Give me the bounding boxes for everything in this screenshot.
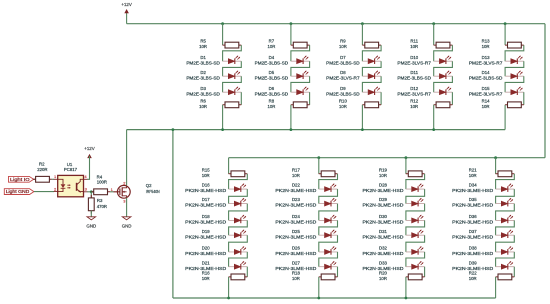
svg-text:D8: D8: [340, 70, 346, 75]
wire U1 pin3-R4: [87, 191, 93, 193]
wire D20-D21: [229, 252, 248, 267]
ground: [86, 217, 96, 229]
wire R7-D4: [291, 45, 310, 61]
resistor R12 10R: [434, 102, 453, 108]
wire right edge feed: [544, 24, 546, 158]
svg-text:PK2N-3LME-HSD: PK2N-3LME-HSD: [452, 203, 493, 208]
wire bank2 bottom rail: [173, 297, 496, 299]
wire D13-D14: [505, 61, 524, 76]
wire +12V top rail: [127, 23, 545, 25]
wire R16 return: [228, 277, 230, 298]
svg-text:PK2N-3LME-HSD: PK2N-3LME-HSD: [185, 234, 226, 239]
wire D33-R20: [424, 267, 426, 277]
svg-text:PM2E-3LBS-SD: PM2E-3LBS-SD: [397, 75, 431, 80]
svg-text:PK2N-3LME-HSD: PK2N-3LME-HSD: [275, 234, 316, 239]
wire D2-D3: [223, 76, 242, 92]
svg-text:PM2E-3LVS-R7: PM2E-3LVS-R7: [326, 75, 360, 80]
svg-text:PM2E-3LBS-SD: PM2E-3LBS-SD: [326, 91, 360, 96]
wire R9 feed: [361, 24, 363, 45]
wire D11-D12: [434, 76, 453, 92]
svg-text:GND: GND: [122, 223, 132, 228]
svg-text:R6: R6: [200, 98, 206, 103]
node bottom rail joint R16: [227, 297, 230, 300]
svg-text:D38: D38: [469, 246, 477, 251]
svg-text:PK2N-3LME-HSD: PK2N-3LME-HSD: [452, 234, 493, 239]
resistor R4 100R: [91, 189, 110, 195]
svg-text:+12V: +12V: [84, 146, 94, 151]
svg-text:D36: D36: [469, 214, 477, 219]
LED D12 PM2E-3LVS-R7: [434, 87, 453, 95]
wire D18-D19: [229, 220, 248, 235]
node top rail joint R13: [504, 22, 507, 25]
wire R6 return: [222, 105, 224, 130]
svg-text:PC817: PC817: [64, 167, 78, 172]
svg-text:GND: GND: [86, 223, 96, 228]
svg-text:PK2N-3LME-HSD: PK2N-3LME-HSD: [275, 220, 316, 225]
resistor R11 10R: [434, 42, 453, 48]
resistor R19 10R: [406, 171, 425, 177]
svg-text:10R: 10R: [339, 44, 347, 49]
wire U1 pin4-+12V: [87, 156, 89, 179]
svg-text:R11: R11: [410, 39, 418, 44]
resistor R17 10R: [319, 171, 338, 177]
wire D30-D31: [406, 220, 425, 235]
svg-text:10R: 10R: [267, 104, 275, 109]
svg-text:10R: 10R: [410, 104, 418, 109]
svg-text:PM2E-3LVS-R7: PM2E-3LVS-R7: [397, 60, 431, 65]
wire R12 return: [433, 105, 435, 130]
LED D5 PM2E-3LBS-SD: [291, 71, 310, 79]
LED D13 PM2E-3LVS-R7: [505, 56, 524, 64]
wire R19 feed: [405, 158, 407, 174]
wire R7 feed: [290, 24, 292, 45]
svg-text:R3: R3: [97, 198, 103, 203]
LED D26 PK2N-3LME-HSD: [319, 246, 338, 254]
LED D37 PK2N-3LME-HSD: [496, 230, 515, 238]
svg-text:D6: D6: [269, 86, 275, 91]
node mid rail joint R8: [290, 128, 293, 131]
wire R15 feed: [228, 158, 230, 174]
svg-text:R7: R7: [269, 39, 275, 44]
svg-text:PK2N-3LME-HSD: PK2N-3LME-HSD: [363, 203, 404, 208]
wire D5-D6: [291, 76, 310, 92]
wire D15-R14: [523, 92, 525, 105]
wire R11 feed: [433, 24, 435, 45]
node bank2 rail joint R19: [405, 156, 408, 159]
wire D3-R6: [240, 92, 242, 105]
svg-text:PK2N-3LME-HSD: PK2N-3LME-HSD: [363, 188, 404, 193]
resistor R2 220R: [33, 176, 52, 182]
svg-text:10R: 10R: [292, 276, 300, 281]
node mid rail joint R6: [221, 128, 224, 131]
svg-text:D39: D39: [469, 260, 477, 265]
svg-text:R8: R8: [269, 98, 275, 103]
svg-text:D7: D7: [340, 55, 346, 60]
svg-text:PM2E-3LBS-SD: PM2E-3LBS-SD: [326, 60, 360, 65]
power +12V: [121, 2, 131, 13]
node top rail joint R11: [432, 22, 435, 25]
svg-text:220R: 220R: [37, 167, 47, 172]
wire R13 feed: [504, 24, 506, 45]
svg-text:D12: D12: [410, 86, 418, 91]
hier label Light IO: [9, 176, 34, 182]
svg-text:D5: D5: [269, 70, 275, 75]
svg-text:D19: D19: [202, 229, 210, 234]
svg-text:10R: 10R: [267, 44, 275, 49]
wire R20 return: [405, 277, 407, 298]
node bank2 rail joint R21: [494, 156, 497, 159]
wire +12V stem: [126, 11, 128, 24]
svg-text:PK2N-3LME-HSD: PK2N-3LME-HSD: [452, 188, 493, 193]
wire D4-D5: [291, 61, 310, 76]
LED D38 PK2N-3LME-HSD: [496, 246, 515, 254]
svg-text:Q2: Q2: [146, 183, 152, 188]
svg-text:PK2N-3LME-HSD: PK2N-3LME-HSD: [185, 203, 226, 208]
LED D23 PK2N-3LME-HSD: [319, 198, 338, 206]
svg-text:PK2N-3LME-HSD: PK2N-3LME-HSD: [452, 251, 493, 256]
wire R13-D13: [505, 45, 524, 61]
wire flag2-U1 pin2: [34, 191, 54, 193]
svg-text:D18: D18: [202, 214, 210, 219]
node node gate-divider: [90, 190, 93, 193]
LED D29 PK2N-3LME-HSD: [406, 198, 425, 206]
LED D33 PK2N-3LME-HSD: [406, 261, 425, 269]
wire D37-D38: [496, 235, 515, 252]
resistor R8 10R: [291, 102, 310, 108]
wire R22 return: [495, 277, 497, 298]
svg-text:10R: 10R: [199, 44, 207, 49]
svg-text:PM2E-3LVS-R7: PM2E-3LVS-R7: [397, 91, 431, 96]
svg-text:D25: D25: [292, 229, 300, 234]
wire D25-D26: [319, 235, 338, 252]
svg-text:R12: R12: [410, 98, 418, 103]
wire D21-R16: [246, 267, 248, 277]
wire D23-D24: [319, 204, 338, 221]
node bottom rail joint R18: [317, 297, 320, 300]
svg-text:PK2N-3LME-HSD: PK2N-3LME-HSD: [275, 251, 316, 256]
svg-text:R22: R22: [469, 271, 477, 276]
wire R11-D10: [434, 45, 453, 61]
wire drain riser: [126, 130, 128, 186]
svg-text:PK2N-3LME-HSD: PK2N-3LME-HSD: [363, 251, 404, 256]
svg-text:10R: 10R: [482, 44, 490, 49]
optocoupler U1 PC817: [58, 175, 84, 196]
wire D8-D9: [362, 76, 381, 92]
wire R21-D34: [496, 174, 515, 189]
wire D10-D11: [434, 61, 453, 76]
wire left return drop: [172, 130, 174, 298]
wire R3-GND: [90, 211, 92, 217]
wire D24-D25: [319, 220, 338, 235]
svg-text:D33: D33: [379, 260, 387, 265]
LED D9 PM2E-3LBS-SD: [362, 87, 381, 95]
svg-text:D27: D27: [292, 260, 300, 265]
wire flag1-R2: [34, 178, 36, 180]
svg-text:D24: D24: [292, 214, 300, 219]
svg-text:100R: 100R: [97, 180, 107, 185]
wire R5-D1: [223, 45, 242, 61]
wire bank2 top rail: [229, 157, 545, 159]
LED D27 PK2N-3LME-HSD: [319, 261, 338, 269]
LED D35 PK2N-3LME-HSD: [496, 198, 515, 206]
svg-text:PM2E-3LBS-SD: PM2E-3LBS-SD: [255, 91, 289, 96]
transistor Q2 IRF540N: [114, 185, 131, 198]
wire R17 feed: [318, 158, 320, 174]
svg-text:D37: D37: [469, 229, 477, 234]
resistor R7 10R: [291, 42, 310, 48]
svg-text:10R: 10R: [292, 173, 300, 178]
LED D31 PK2N-3LME-HSD: [406, 230, 425, 238]
wire D7-D8: [362, 61, 381, 76]
svg-text:R10: R10: [339, 98, 347, 103]
LED D1 PM2E-3LBS-SD: [223, 56, 242, 64]
svg-text:D34: D34: [469, 183, 477, 188]
svg-text:D15: D15: [482, 86, 490, 91]
svg-text:R14: R14: [482, 98, 490, 103]
svg-text:D28: D28: [379, 183, 387, 188]
svg-text:PM2E-3LBS-SD: PM2E-3LBS-SD: [186, 60, 220, 65]
svg-text:PM2E-3LBS-SD: PM2E-3LBS-SD: [186, 75, 220, 80]
wire R15-D16: [229, 174, 248, 189]
svg-text:10R: 10R: [379, 276, 387, 281]
svg-text:D2: D2: [200, 70, 206, 75]
svg-text:D13: D13: [482, 55, 490, 60]
wire D38-D39: [496, 252, 515, 267]
wire R17-D22: [319, 174, 338, 189]
svg-text:D32: D32: [379, 246, 387, 251]
wire D35-D36: [496, 204, 515, 221]
node bottom rail joint R20: [405, 297, 408, 300]
svg-text:PM2E-3LVS-R7: PM2E-3LVS-R7: [469, 91, 503, 96]
LED D24 PK2N-3LME-HSD: [319, 215, 338, 223]
LED D11 PM2E-3LBS-SD: [434, 71, 453, 79]
LED D6 PM2E-3LBS-SD: [291, 87, 310, 95]
svg-text:PM2E-3LVS-R7: PM2E-3LVS-R7: [469, 60, 503, 65]
svg-text:D30: D30: [379, 214, 387, 219]
svg-text:D35: D35: [469, 197, 477, 202]
resistor R9 10R: [362, 42, 381, 48]
svg-text:PM2E-3LBS-SD: PM2E-3LBS-SD: [255, 60, 289, 65]
svg-text:D26: D26: [292, 246, 300, 251]
wire mid drain rail: [127, 129, 506, 131]
wire R8 return: [290, 105, 292, 130]
svg-text:10R: 10R: [339, 104, 347, 109]
svg-text:R15: R15: [202, 167, 210, 172]
wire D9-R10: [380, 92, 382, 105]
resistor R16 10R: [229, 274, 248, 280]
wire D34-D35: [496, 189, 515, 204]
svg-text:10R: 10R: [482, 104, 490, 109]
svg-text:R20: R20: [379, 271, 387, 276]
node mid rail joint return: [172, 128, 175, 131]
node top rail joint R5: [221, 22, 224, 25]
LED D18 PK2N-3LME-HSD: [229, 215, 248, 223]
wire D39-R22: [513, 267, 515, 277]
LED D36 PK2N-3LME-HSD: [496, 215, 515, 223]
wire D17-D18: [229, 204, 248, 221]
svg-text:10R: 10R: [469, 173, 477, 178]
svg-text:D9: D9: [340, 86, 346, 91]
node mid rail joint R10: [361, 128, 364, 131]
LED D28 PK2N-3LME-HSD: [406, 184, 425, 192]
resistor R22 10R: [496, 274, 515, 280]
svg-text:D23: D23: [292, 197, 300, 202]
node mid rail joint R12: [432, 128, 435, 131]
LED D16 PK2N-3LME-HSD: [229, 184, 248, 192]
svg-text:PK2N-3LME-HSD: PK2N-3LME-HSD: [275, 203, 316, 208]
LED D15 PM2E-3LVS-R7: [505, 87, 524, 95]
wire D32-D33: [406, 252, 425, 267]
wire Q2 source-GND: [126, 198, 128, 217]
LED D7 PM2E-3LBS-SD: [362, 56, 381, 64]
svg-text:D14: D14: [482, 70, 490, 75]
svg-text:PK2N-3LME-HSD: PK2N-3LME-HSD: [185, 220, 226, 225]
wire D27-R18: [337, 267, 339, 277]
LED D19 PK2N-3LME-HSD: [229, 230, 248, 238]
svg-text:10R: 10R: [202, 276, 210, 281]
pin stubs U1: [54, 179, 88, 192]
svg-text:470R: 470R: [97, 204, 107, 209]
wire D1-D2: [223, 61, 242, 76]
svg-text:Light IO: Light IO: [10, 177, 30, 182]
svg-text:PK2N-3LME-HSD: PK2N-3LME-HSD: [363, 234, 404, 239]
LED D25 PK2N-3LME-HSD: [319, 230, 338, 238]
svg-text:PK2N-3LME-HSD: PK2N-3LME-HSD: [452, 220, 493, 225]
svg-text:+12V: +12V: [121, 2, 131, 7]
LED D3 PM2E-3LBS-SD: [223, 87, 242, 95]
svg-text:PK2N-3LME-HSD: PK2N-3LME-HSD: [185, 251, 226, 256]
resistor R21 10R: [496, 171, 515, 177]
svg-text:D4: D4: [269, 55, 275, 60]
resistor R14 10R: [505, 102, 524, 108]
wire R19-D28: [406, 174, 425, 189]
LED D39 PK2N-3LME-HSD: [496, 261, 515, 269]
svg-text:IRF540N: IRF540N: [146, 189, 160, 194]
svg-text:PK2N-3LME-HSD: PK2N-3LME-HSD: [275, 188, 316, 193]
svg-text:PM2E-3LBS-SD: PM2E-3LBS-SD: [186, 91, 220, 96]
wire R3 top: [90, 192, 92, 198]
wire R21 feed: [495, 158, 497, 174]
power +12V: [84, 146, 94, 158]
resistor R5 10R: [223, 42, 242, 48]
wire D28-D29: [406, 189, 425, 204]
svg-text:D1: D1: [200, 55, 206, 60]
resistor R6 10R: [223, 102, 242, 108]
wire D29-D30: [406, 204, 425, 221]
wire R9-D7: [362, 45, 381, 61]
wire R14 return: [504, 105, 506, 130]
wire R18 return: [318, 277, 320, 298]
LED D32 PK2N-3LME-HSD: [406, 246, 425, 254]
svg-text:10R: 10R: [199, 104, 207, 109]
resistor R20 10R: [406, 274, 425, 280]
LED D21 PK2N-3LME-HSD: [229, 261, 248, 269]
LED D22 PK2N-3LME-HSD: [319, 184, 338, 192]
node bank2 rail joint R17: [317, 156, 320, 159]
wire D16-D17: [229, 189, 248, 204]
LED D14 PM2E-3LBS-SD: [505, 71, 524, 79]
svg-text:10R: 10R: [202, 173, 210, 178]
wire D12-R12: [451, 92, 453, 105]
LED D30 PK2N-3LME-HSD: [406, 215, 425, 223]
svg-text:PK2N-3LME-HSD: PK2N-3LME-HSD: [363, 220, 404, 225]
LED D34 PK2N-3LME-HSD: [496, 184, 515, 192]
svg-text:PM2E-3LBS-SD: PM2E-3LBS-SD: [255, 75, 289, 80]
node top rail joint R7: [290, 22, 293, 25]
wire D14-D15: [505, 76, 524, 92]
resistor R15 10R: [229, 171, 248, 177]
svg-text:R17: R17: [292, 167, 300, 172]
svg-text:R13: R13: [482, 39, 490, 44]
wire D26-D27: [319, 252, 338, 267]
LED D20 PK2N-3LME-HSD: [229, 246, 248, 254]
resistor R10 10R: [362, 102, 381, 108]
svg-text:R19: R19: [379, 167, 387, 172]
resistor R13 10R: [505, 42, 524, 48]
LED D2 PM2E-3LBS-SD: [223, 71, 242, 79]
svg-text:D31: D31: [379, 229, 387, 234]
LED D10 PM2E-3LVS-R7: [434, 56, 453, 64]
svg-text:10R: 10R: [379, 173, 387, 178]
svg-text:R2: R2: [39, 161, 45, 166]
svg-text:PM2E-3LBS-SD: PM2E-3LBS-SD: [469, 75, 503, 80]
svg-text:D29: D29: [379, 197, 387, 202]
hier label Light GND: [4, 189, 34, 195]
wire D22-D23: [319, 189, 338, 204]
LED D17 PK2N-3LME-HSD: [229, 198, 248, 206]
svg-text:R18: R18: [292, 271, 300, 276]
svg-text:R9: R9: [340, 39, 346, 44]
svg-text:D20: D20: [202, 246, 210, 251]
LED D8 PM2E-3LVS-R7: [362, 71, 381, 79]
svg-text:R21: R21: [469, 167, 477, 172]
svg-text:D16: D16: [202, 183, 210, 188]
svg-text:R16: R16: [202, 271, 210, 276]
LED D4 PM2E-3LBS-SD: [291, 56, 310, 64]
svg-text:D17: D17: [202, 197, 210, 202]
wire D36-D37: [496, 220, 515, 235]
wire D19-D20: [229, 235, 248, 252]
svg-text:PK2N-3LME-HSD: PK2N-3LME-HSD: [185, 188, 226, 193]
svg-text:D22: D22: [292, 183, 300, 188]
svg-text:R5: R5: [200, 39, 206, 44]
wire R2-U1 pin1: [52, 178, 54, 180]
wire D6-R8: [309, 92, 311, 105]
svg-text:D21: D21: [202, 260, 210, 265]
ground: [122, 217, 132, 229]
wire R4-Q2 gate: [110, 191, 114, 193]
wire R5 feed: [222, 24, 224, 45]
svg-text:D10: D10: [410, 55, 418, 60]
svg-text:D11: D11: [410, 70, 418, 75]
node top rail joint R9: [361, 22, 364, 25]
svg-text:Light GND: Light GND: [6, 189, 30, 194]
wire D31-D32: [406, 235, 425, 252]
wire R10 return: [361, 105, 363, 130]
svg-text:D3: D3: [200, 86, 206, 91]
svg-text:10R: 10R: [410, 44, 418, 49]
resistor R3 470R: [88, 195, 94, 214]
svg-text:10R: 10R: [469, 276, 477, 281]
resistor R18 10R: [319, 274, 338, 280]
